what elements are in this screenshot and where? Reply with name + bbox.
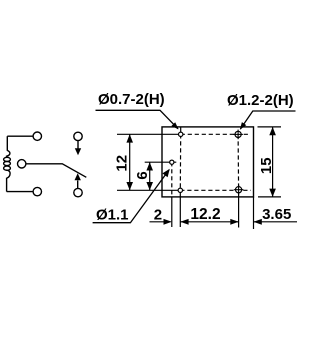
extension line right hole column — [238, 190, 240, 228]
leader arrow to COM hole — [162, 169, 169, 178]
dashed hole-pattern left edge — [179, 134, 181, 190]
leader underline label 1.1 — [93, 170, 169, 223]
NO contact arrow (up) — [75, 173, 81, 188]
dashed hole-pattern bottom edge — [180, 189, 251, 191]
extension line top hole row (12 dim) — [117, 133, 179, 135]
dashed hole-pattern top edge — [181, 133, 250, 135]
svg-text:Ø0.7-2(H): Ø0.7-2(H) — [98, 91, 165, 108]
switch blade wire from COM — [26, 164, 86, 178]
leader underline label 1.2 — [240, 111, 295, 129]
dimension line 2 — [150, 221, 171, 223]
dimension line 15 — [272, 127, 274, 197]
pin 1 circle (coil top) — [33, 132, 41, 140]
svg-text:Ø1.2-2(H): Ø1.2-2(H) — [227, 92, 294, 109]
leader underline label 0.7 — [96, 110, 179, 129]
hole 1.2 bottom-right — [236, 187, 242, 193]
extension line rect bottom right (15 dim) — [258, 196, 281, 198]
cross in bottom-right hole — [234, 189, 244, 191]
svg-text:3.65: 3.65 — [262, 206, 291, 223]
arrow 15-dim bottom (down) — [269, 189, 276, 197]
hole 1.2 top-right — [235, 131, 241, 137]
svg-text:12: 12 — [114, 155, 131, 172]
arrow 12.2-dim right — [230, 219, 238, 225]
dimension line 6 — [149, 162, 151, 190]
svg-text:Ø1.1: Ø1.1 — [96, 207, 129, 224]
arrow 2-dim (right) — [164, 219, 172, 225]
extension line COM hole row (6 dim) — [145, 161, 177, 163]
dashed centerline through COM hole — [171, 162, 173, 197]
relay coil L1 — [4, 136, 11, 191]
arrow 12-dim top (up) — [126, 134, 133, 142]
arrow 3.65-dim (left) — [254, 219, 262, 225]
hole 1.1 COM — [170, 160, 174, 164]
extension line rect right edge down — [253, 197, 255, 229]
PCB footprint outline rect — [162, 127, 254, 197]
extension line bottom hole row (12 dim) — [117, 189, 178, 191]
pin 2 circle (coil bottom) — [33, 187, 41, 195]
dimension line 12 — [129, 134, 131, 190]
hole centerline above top-left hole — [180, 127, 182, 132]
NC pin circle — [74, 132, 82, 140]
svg-text:12.2: 12.2 — [190, 206, 220, 223]
arrow 6-dim bottom (down) — [146, 182, 153, 190]
wire coil bottom to pin 2 — [7, 191, 33, 193]
svg-text:6: 6 — [134, 171, 151, 179]
svg-text:2: 2 — [154, 206, 162, 223]
arrow 12-dim bottom (down) — [126, 182, 133, 190]
NO pin circle — [74, 188, 82, 196]
dashed hole-pattern right edge — [237, 134, 240, 190]
extension line COM hole column — [171, 197, 173, 227]
cross in top-right hole — [233, 133, 243, 135]
leader arrow to top-right hole — [240, 122, 247, 130]
dimension line 3.65 — [254, 221, 298, 223]
NC contact arrow (down) — [75, 141, 81, 156]
extension line left hole column — [179, 190, 181, 227]
arrow 6-dim top (up) — [146, 162, 153, 170]
arrow 12.2-dim left — [180, 219, 188, 225]
wire coil top to pin 1 — [7, 135, 33, 137]
hole 0.7 bottom-left — [178, 188, 182, 192]
extension line rect top right (15 dim) — [258, 126, 282, 128]
arrow 15-dim top (up) — [269, 127, 276, 135]
hole 0.7 top-left — [179, 132, 183, 136]
pin COM circle — [18, 160, 26, 168]
svg-text:15: 15 — [258, 157, 275, 174]
leader arrow to top-left hole — [171, 122, 178, 129]
dimension line 12.2 — [180, 221, 238, 223]
